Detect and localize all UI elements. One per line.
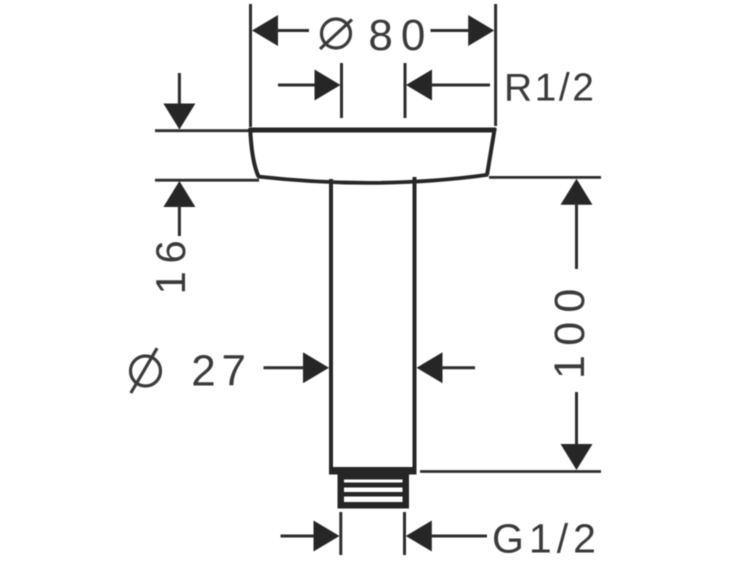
dimension 100: top up arrowhead [561, 179, 593, 205]
shaft bottom collar band [329, 467, 417, 475]
thread block G1/2 [338, 474, 410, 509]
dimension R1/2: right tick [404, 63, 407, 118]
wire: right horizontal reference line at flange bottom [489, 176, 601, 179]
dimension 16: bottom stem [178, 205, 181, 236]
svg-text:27: 27 [191, 346, 252, 395]
dimension 16: bottom up arrowhead [163, 181, 195, 207]
thread white stripe 3 [344, 497, 403, 503]
dimension G1/2: left-pointing arrowhead [406, 521, 432, 552]
svg-text:100: 100 [546, 279, 594, 379]
label Ø27: diameter symbol circle [131, 356, 161, 386]
shaft left edge [329, 179, 333, 470]
dimension 100: bottom down arrowhead [561, 444, 593, 470]
wire: left horizontal reference line at flange top (ceiling plane) [155, 129, 250, 132]
label Ø80: diameter symbol slash [320, 20, 352, 50]
svg-text:R1/2: R1/2 [504, 67, 596, 110]
thread white stripe 2 [344, 488, 403, 493]
flange top edge [249, 128, 496, 133]
dimension 100: upper stem [575, 203, 578, 269]
flange bottom arc [258, 175, 489, 183]
dimension G1/2: right tail [430, 535, 487, 538]
dimension R1/2: left-pointing arrowhead [406, 70, 432, 101]
label Ø27: diameter symbol slash [131, 348, 157, 393]
wire: right horizontal reference line at shaft bottom [420, 470, 601, 473]
flange right edge [487, 128, 495, 175]
svg-text:16: 16 [147, 233, 194, 295]
shaft right edge [413, 177, 417, 470]
dimension Ø27: right tail [441, 366, 476, 369]
dimension Ø80: right arrowhead [468, 15, 494, 46]
dimension G1/2: left tail [281, 535, 316, 538]
dimension 16: top down-arrow stem [178, 73, 181, 107]
label Ø80: diameter symbol circle [322, 19, 351, 48]
dimension G1/2: right-pointing arrowhead [314, 521, 340, 552]
dimension R1/2: right-pointing arrowhead [315, 70, 341, 101]
dimension Ø27: left tail [264, 366, 307, 369]
dimension G1/2: left tick [339, 512, 342, 555]
dimension 16: top down arrowhead [163, 104, 195, 130]
dimension R1/2: left tick [340, 63, 343, 118]
dimension Ø80: left tail [276, 29, 309, 32]
svg-text:G1/2: G1/2 [492, 516, 601, 562]
flange body (escutcheon cross-section) [249, 128, 496, 183]
wire: left horizontal reference line at flange bottom [155, 179, 259, 182]
flange left edge [250, 128, 258, 177]
dimension Ø80: left extension line [249, 4, 252, 127]
thread white stripe 1 [344, 480, 403, 483]
dimension Ø27: right-pointing arrowhead at shaft left [303, 352, 329, 383]
dimension Ø27: left-pointing arrowhead at shaft right [417, 352, 443, 383]
dimension Ø80: right tail [431, 29, 471, 32]
dimension R1/2: right tail [430, 84, 490, 87]
dimension R1/2: left tail [278, 84, 316, 87]
dimension Ø80: left arrowhead [252, 15, 278, 46]
svg-text:80: 80 [368, 11, 433, 60]
dimension 100: lower stem [575, 392, 578, 447]
dimension Ø80: right extension line [494, 4, 497, 126]
dimension G1/2: right tick [403, 512, 406, 555]
